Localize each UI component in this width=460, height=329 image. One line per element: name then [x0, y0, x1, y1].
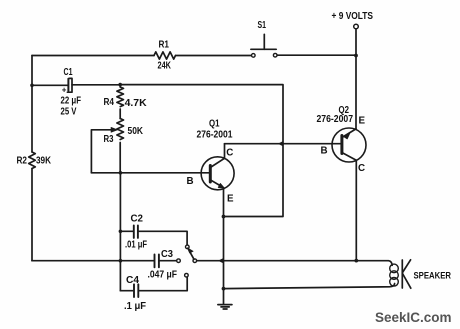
svg-text:+ 9 VOLTS: + 9 VOLTS	[332, 11, 374, 22]
svg-text:R2: R2	[17, 156, 28, 167]
svg-text:.047 μF: .047 μF	[148, 270, 178, 281]
svg-text:C: C	[226, 148, 233, 159]
svg-text:C4: C4	[126, 275, 140, 286]
svg-text:276-2007: 276-2007	[317, 114, 354, 125]
svg-text:C2: C2	[131, 214, 144, 225]
svg-text:R3: R3	[104, 134, 114, 145]
svg-text:4.7K: 4.7K	[125, 98, 147, 109]
svg-text:C1: C1	[64, 67, 73, 78]
svg-text:B: B	[187, 176, 194, 187]
svg-text:Q1: Q1	[209, 118, 220, 129]
svg-text:S1: S1	[258, 20, 267, 31]
svg-text:SPEAKER: SPEAKER	[414, 271, 452, 281]
svg-text:SeekIC.com: SeekIC.com	[375, 310, 452, 326]
svg-text:39K: 39K	[36, 156, 51, 167]
svg-text:R4: R4	[104, 97, 115, 108]
svg-text:24K: 24K	[158, 61, 172, 72]
svg-text:E: E	[227, 194, 234, 205]
svg-text:50K: 50K	[128, 126, 144, 137]
svg-text:C3: C3	[161, 249, 174, 260]
svg-text:R1: R1	[159, 40, 170, 51]
svg-text:E: E	[359, 116, 366, 127]
svg-text:22 μF: 22 μF	[61, 96, 82, 107]
svg-text:.1 μF: .1 μF	[124, 301, 146, 312]
svg-text:25 V: 25 V	[61, 107, 77, 118]
svg-text:.01 μF: .01 μF	[125, 240, 147, 251]
svg-text:276-2001: 276-2001	[197, 130, 233, 141]
svg-text:C: C	[358, 163, 365, 174]
svg-text:B: B	[321, 146, 328, 157]
svg-text:+: +	[62, 85, 67, 94]
